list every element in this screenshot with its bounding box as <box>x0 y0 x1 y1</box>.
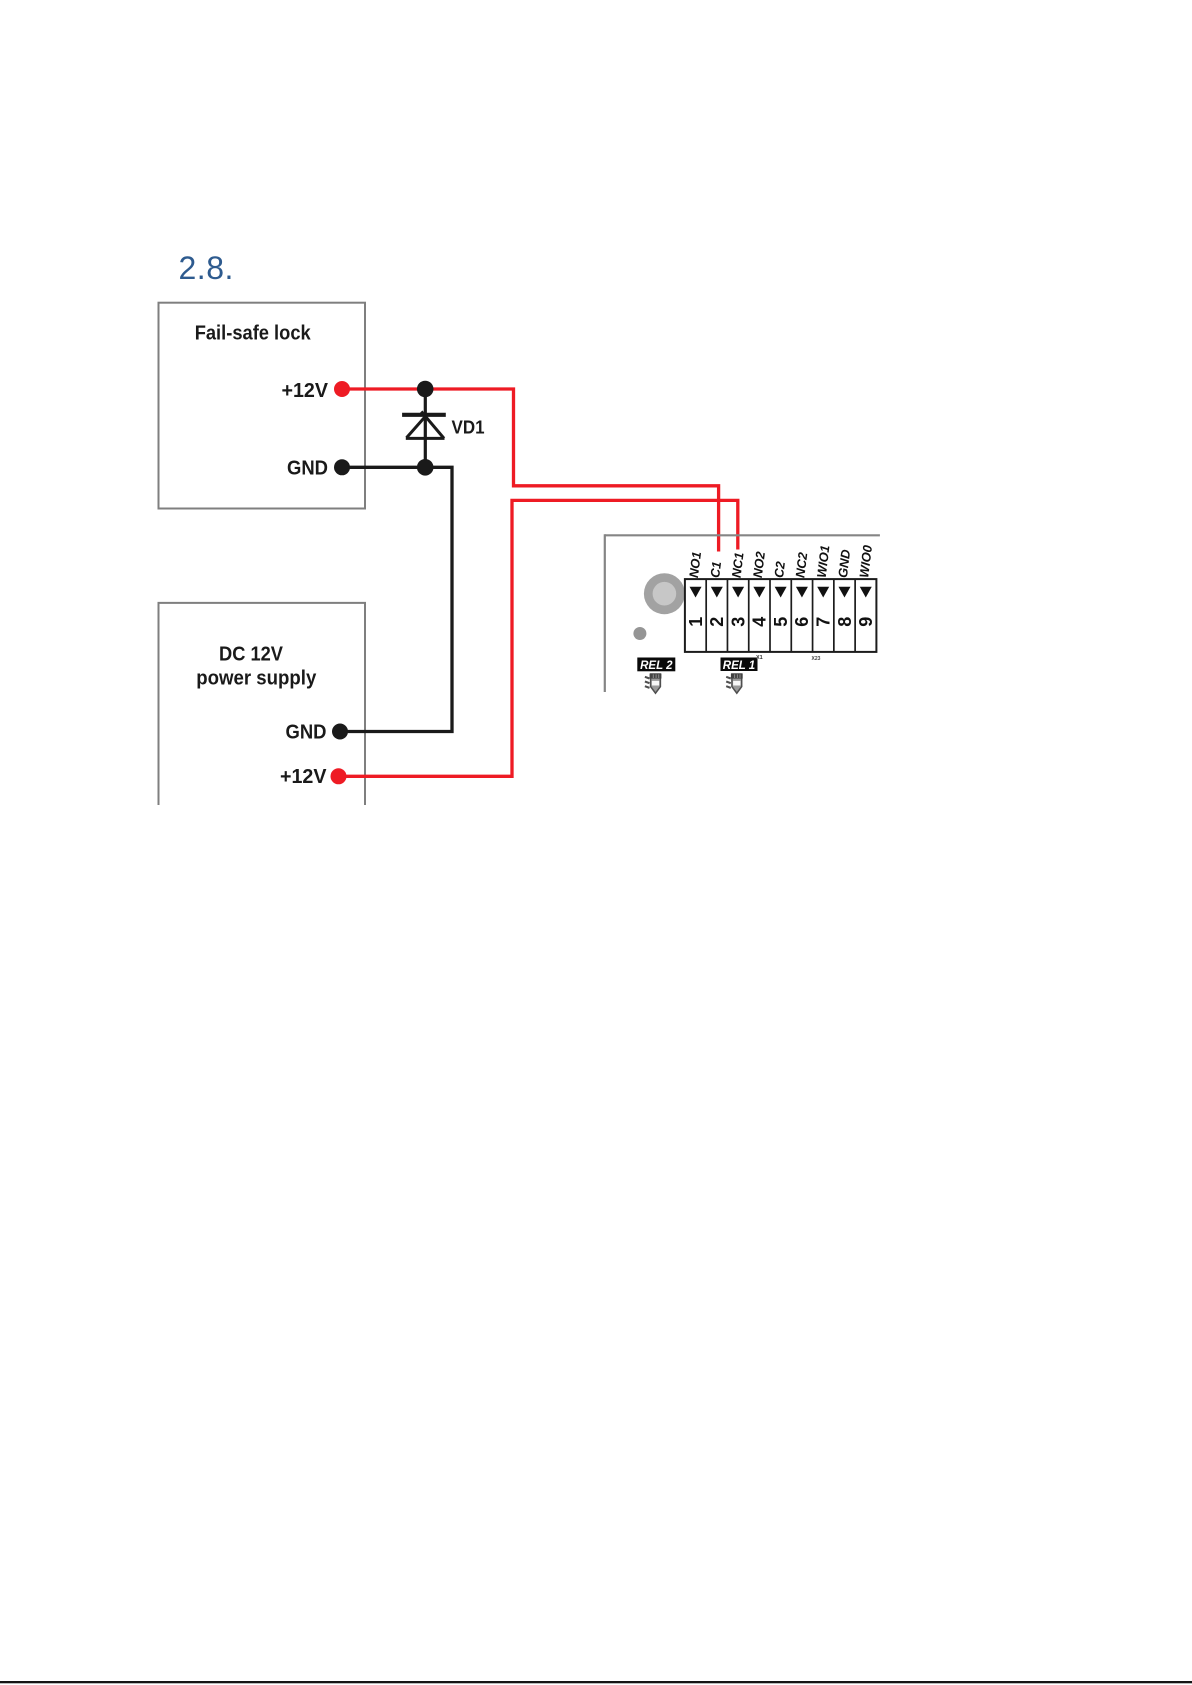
svg-text:5: 5 <box>771 617 791 627</box>
svg-text:2.8.: 2.8. <box>179 250 234 286</box>
svg-text:GND: GND <box>286 721 327 743</box>
svg-text:X1: X1 <box>756 655 763 661</box>
svg-text:+12V: +12V <box>280 766 327 788</box>
svg-text:9: 9 <box>856 617 876 627</box>
svg-text:6: 6 <box>792 617 812 627</box>
svg-text:NC2: NC2 <box>792 551 810 578</box>
svg-text:NC1: NC1 <box>729 551 747 578</box>
svg-text:WIO0: WIO0 <box>856 544 875 578</box>
svg-text:power supply: power supply <box>196 667 317 689</box>
svg-text:+12V: +12V <box>282 380 329 402</box>
svg-text:VD1: VD1 <box>452 418 485 438</box>
svg-text:DC 12V: DC 12V <box>219 643 284 665</box>
svg-text:2: 2 <box>707 617 727 627</box>
svg-text:WIO1: WIO1 <box>814 544 833 578</box>
svg-text:Fail-safe lock: Fail-safe lock <box>195 322 312 344</box>
svg-text:GND: GND <box>835 549 853 579</box>
svg-text:1: 1 <box>686 617 706 627</box>
svg-text:7: 7 <box>814 617 834 627</box>
svg-text:REL 1: REL 1 <box>723 660 755 672</box>
svg-text:NO1: NO1 <box>686 551 704 579</box>
svg-text:X23: X23 <box>812 656 821 662</box>
svg-text:GND: GND <box>287 457 328 479</box>
svg-text:8: 8 <box>835 617 855 627</box>
svg-text:C2: C2 <box>771 561 788 579</box>
svg-text:NO2: NO2 <box>750 551 768 579</box>
svg-text:3: 3 <box>728 617 748 627</box>
svg-text:REL 2: REL 2 <box>640 660 673 672</box>
svg-text:C1: C1 <box>707 561 724 579</box>
svg-text:4: 4 <box>750 617 770 627</box>
